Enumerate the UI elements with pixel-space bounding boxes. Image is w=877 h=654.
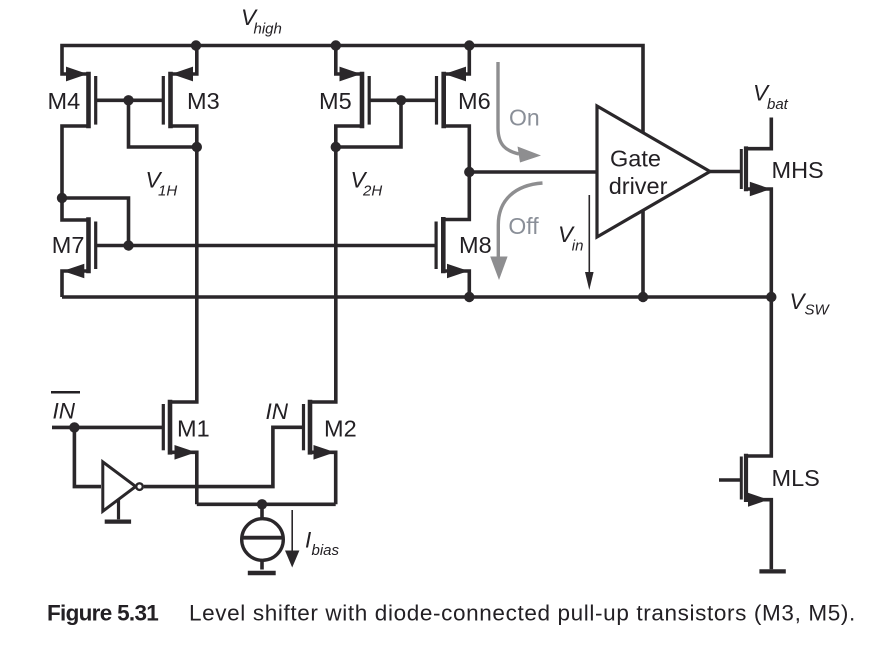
transistor M6 source arrow bbox=[445, 67, 467, 82]
wire M6 drain down to M8 drain bbox=[443, 126, 469, 220]
wire diode loop M5 gate to M5 drain bbox=[336, 100, 401, 147]
svg-text:Off: Off bbox=[508, 213, 539, 239]
node dot M4 drain M7 bbox=[57, 193, 67, 203]
transistor MHS source arrow bbox=[750, 182, 771, 197]
transistor M3 PMOS bars bbox=[163, 72, 170, 129]
node dot M7 gate jog bbox=[123, 240, 133, 250]
svg-text:M7: M7 bbox=[52, 232, 85, 258]
node dot V1H join bbox=[192, 142, 202, 152]
transistor M7 source arrow bbox=[63, 264, 85, 279]
inverter triangle bbox=[103, 462, 136, 511]
wire IN input to M1 gate bbox=[52, 426, 163, 430]
wire node V1H column M3 drain to M1 drain bbox=[170, 126, 197, 402]
gray arrow Off bbox=[498, 183, 542, 258]
svg-text:M6: M6 bbox=[458, 88, 491, 114]
node dot M4-M3 gate bbox=[123, 95, 133, 105]
svg-text:IN: IN bbox=[266, 399, 289, 424]
svg-text:in: in bbox=[572, 238, 584, 255]
wire MHS drain to Vbat stub bbox=[746, 118, 771, 149]
transistor M7 NMOS bars bbox=[89, 217, 96, 273]
node dot M5 source on rail bbox=[331, 40, 341, 50]
wire IN node down to inverter input bbox=[74, 427, 101, 486]
wire gate driver input from M6 drain node bbox=[469, 170, 597, 174]
wire gate driver output to MHS gate bbox=[710, 170, 741, 174]
node dot V2H join bbox=[331, 142, 341, 152]
node dot driver return on VSW bbox=[638, 292, 648, 302]
node dot M5-M6 gate bbox=[396, 95, 406, 105]
transistor M6 PMOS bars bbox=[437, 72, 444, 129]
wire node V2H column M5 drain to M2 drain bbox=[310, 126, 362, 402]
wire MLS source to ground bbox=[746, 500, 771, 570]
wire M3 source to rail bbox=[171, 46, 197, 75]
svg-text:driver: driver bbox=[609, 173, 668, 199]
transistor MHS NMOS bars bbox=[741, 146, 746, 191]
wire MHS source down to VSW rail bbox=[746, 189, 771, 297]
wire diode loop M3 gate to M3 drain bbox=[129, 100, 197, 147]
svg-text:IN: IN bbox=[53, 399, 76, 424]
wire M2 source to tail bbox=[310, 452, 336, 504]
node dot IN bbox=[69, 422, 79, 432]
current source Ibias circle bbox=[242, 519, 284, 561]
current source chord bbox=[243, 536, 284, 540]
node dot M6 source on rail bbox=[464, 40, 474, 50]
inverter output bubble bbox=[136, 483, 143, 490]
transistor M1 source arrow bbox=[175, 445, 197, 460]
wire inverter ground stub bbox=[117, 499, 120, 519]
transistor M5 PMOS bars bbox=[362, 72, 369, 129]
svg-text:Level shifter with diode-conne: Level shifter with diode-connected pull-… bbox=[189, 600, 856, 625]
transistor M2 NMOS bars bbox=[304, 400, 311, 455]
svg-text:M2: M2 bbox=[324, 416, 357, 442]
transistor MLS NMOS bars bbox=[741, 454, 746, 502]
Ibias arrow bbox=[291, 510, 293, 552]
wire M1 source to tail bbox=[170, 452, 197, 504]
wire M7 source to VSW rail bbox=[62, 271, 89, 297]
node dot tail current source bbox=[257, 499, 267, 509]
svg-text:I: I bbox=[305, 528, 311, 553]
wire M4 drain to M7 drain column bbox=[62, 126, 89, 220]
svg-text:M3: M3 bbox=[187, 88, 220, 114]
svg-text:Gate: Gate bbox=[610, 146, 661, 172]
wire M8 source to VSW rail bbox=[443, 271, 469, 297]
wire jog M7 drain node to M7 gate line bbox=[62, 198, 129, 246]
svg-text:MLS: MLS bbox=[772, 465, 820, 491]
svg-text:M4: M4 bbox=[48, 88, 81, 114]
wire MLS gate stub bbox=[719, 478, 741, 482]
wire tail to current source bbox=[260, 504, 264, 519]
Vin arrow bbox=[588, 195, 590, 273]
transistor M8 source arrow bbox=[447, 264, 469, 279]
svg-text:M5: M5 bbox=[319, 88, 352, 114]
ground bar at inverter bbox=[105, 519, 131, 523]
wire top rail Vhigh with right drop to gate driver supply bbox=[62, 46, 643, 298]
svg-text:high: high bbox=[254, 21, 282, 38]
node dot M8 source on VSW bbox=[464, 292, 474, 302]
svg-text:M1: M1 bbox=[177, 416, 210, 442]
transistor M2 source arrow bbox=[314, 445, 336, 460]
svg-text:M8: M8 bbox=[459, 232, 492, 258]
wire VSW rail bbox=[62, 295, 771, 299]
svg-text:Figure 5.31: Figure 5.31 bbox=[47, 600, 158, 625]
transistor M4 PMOS bars bbox=[89, 72, 96, 129]
gray arrow On bbox=[498, 62, 519, 154]
node dot driver input bbox=[464, 167, 474, 177]
transistor M1 NMOS bars bbox=[163, 400, 170, 455]
node dot M3 source on rail bbox=[191, 40, 201, 50]
wire MLS drain from VSW rail bbox=[746, 297, 771, 456]
transistor M8 NMOS bars bbox=[436, 217, 443, 273]
svg-text:bias: bias bbox=[312, 542, 340, 559]
ground bar at MLS bbox=[759, 569, 785, 573]
svg-text:SW: SW bbox=[805, 302, 831, 319]
svg-text:1H: 1H bbox=[158, 183, 177, 200]
svg-text:MHS: MHS bbox=[772, 157, 824, 183]
node dot VSW right end bbox=[766, 292, 776, 302]
wire M5 gate to M6 gate bbox=[369, 99, 436, 103]
transistor MLS source arrow bbox=[748, 493, 769, 507]
wire current source to ground bbox=[260, 560, 264, 569]
svg-text:2H: 2H bbox=[362, 183, 382, 200]
transistor M5 source arrow bbox=[340, 67, 362, 82]
wire M6 source to rail bbox=[444, 46, 470, 75]
ground bar at current source bbox=[248, 571, 276, 576]
svg-text:On: On bbox=[509, 105, 540, 131]
wire tail line bbox=[197, 502, 336, 506]
wire M4 gate to M3 gate bbox=[96, 99, 164, 103]
svg-text:bat: bat bbox=[767, 96, 789, 113]
wire inverter output to M2 gate bbox=[144, 427, 304, 486]
wire M7 gate to M8 gate bbox=[96, 244, 436, 248]
wire M5 source to rail bbox=[336, 46, 362, 75]
transistor M3 source arrow bbox=[172, 67, 194, 82]
op-amp U1 gate driver triangle bbox=[597, 106, 710, 237]
transistor M4 source arrow bbox=[66, 67, 88, 82]
